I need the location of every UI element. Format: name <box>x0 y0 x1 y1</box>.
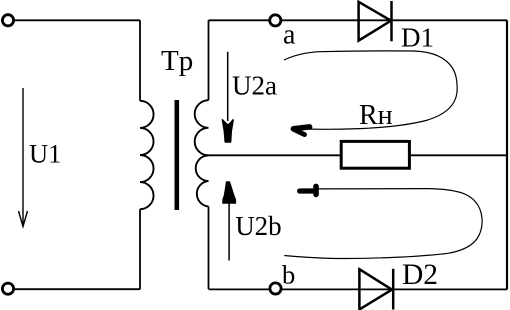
wire secondary top vertical <box>208 20 210 100</box>
current loop bottom curve <box>284 189 482 259</box>
wire top-left horizontal <box>15 19 140 21</box>
transformer secondary winding top half <box>195 100 209 155</box>
svg-text:D2: D2 <box>402 259 438 291</box>
voltage arrow U2b head <box>223 182 236 204</box>
node b <box>270 283 281 294</box>
wire bottom-left horizontal <box>15 288 140 290</box>
svg-text:Tp: Tp <box>161 45 193 77</box>
svg-text:U2a: U2a <box>232 71 277 101</box>
wire center tap to load <box>204 154 508 156</box>
resistor Rн load <box>341 141 409 168</box>
transformer secondary winding bottom half <box>196 155 209 206</box>
terminal bottom-left input <box>2 283 13 294</box>
wire primary left vertical top <box>139 20 141 101</box>
voltage arrow U2a head <box>222 120 233 142</box>
svg-text:D1: D1 <box>401 23 434 53</box>
terminal top-left input <box>2 15 13 26</box>
wire right rail <box>506 20 508 289</box>
wire primary left vertical bottom <box>139 209 141 289</box>
diode D2 <box>359 269 393 310</box>
voltage arrow U1 <box>19 88 28 227</box>
current loop top curve <box>284 51 457 129</box>
transformer core <box>175 100 180 210</box>
voltage arrow U2b line <box>228 201 230 261</box>
diode D1 <box>359 1 392 41</box>
current loop top arrowhead <box>293 127 309 135</box>
current loop bottom arrowhead <box>300 186 316 194</box>
wire bottom rail <box>209 288 508 290</box>
svg-text:U1: U1 <box>29 139 61 169</box>
svg-text:U2b: U2b <box>235 211 282 241</box>
wire secondary bottom vertical <box>208 207 210 290</box>
svg-text:a: a <box>283 20 296 51</box>
wire top rail <box>209 19 508 21</box>
transformer Tp primary winding <box>140 101 154 209</box>
node a <box>270 15 281 26</box>
voltage arrow U2a line <box>227 52 229 121</box>
svg-text:b: b <box>282 260 295 290</box>
